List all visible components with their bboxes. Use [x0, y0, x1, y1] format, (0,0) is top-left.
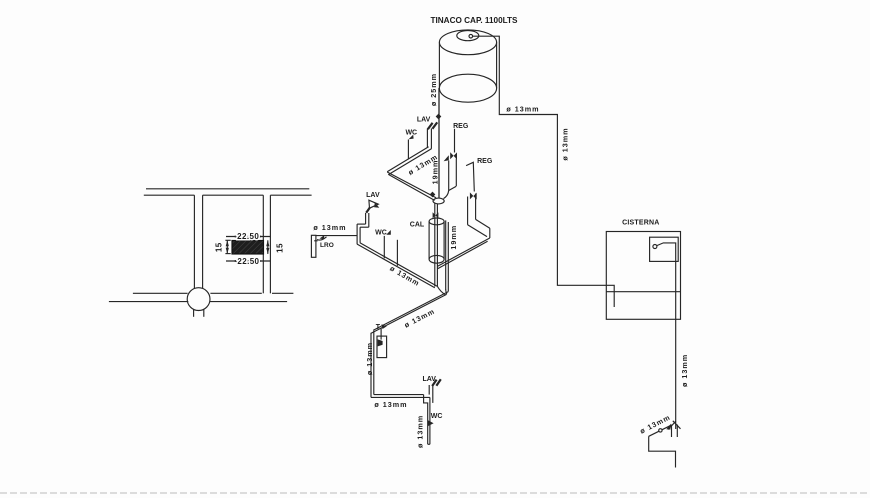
svg-text:ø 13mm: ø 13mm: [561, 127, 570, 160]
svg-text:LAV: LAV: [422, 376, 436, 383]
svg-text:CISTERNA: CISTERNA: [622, 220, 659, 227]
svg-text:REG: REG: [477, 158, 493, 165]
svg-text:ø 13mm: ø 13mm: [506, 104, 539, 113]
svg-text:ø 13mm: ø 13mm: [365, 342, 374, 375]
svg-text:15: 15: [276, 243, 285, 253]
svg-text:LAV: LAV: [366, 192, 380, 199]
svg-text:WC: WC: [405, 130, 417, 137]
svg-text:LRO: LRO: [320, 242, 334, 249]
svg-text:REG: REG: [453, 123, 469, 130]
svg-text:ø 13mm: ø 13mm: [638, 413, 672, 436]
svg-text:ø 13mm: ø 13mm: [374, 400, 407, 409]
svg-text:22.50: 22.50: [237, 232, 259, 241]
svg-text:T: T: [376, 324, 381, 331]
svg-text:ø 13mm: ø 13mm: [313, 223, 346, 232]
svg-text:WC: WC: [375, 229, 387, 236]
svg-text:TINACO CAP. 1100LTS: TINACO CAP. 1100LTS: [430, 16, 518, 25]
svg-text:22.50: 22.50: [237, 257, 259, 266]
svg-text:15: 15: [214, 242, 223, 252]
svg-text:19mm: 19mm: [430, 160, 439, 185]
svg-text:ø 13mm: ø 13mm: [680, 354, 689, 387]
svg-text:LAV: LAV: [417, 116, 431, 123]
svg-text:ø 13mm: ø 13mm: [388, 264, 421, 288]
svg-text:ø 25mm: ø 25mm: [429, 73, 438, 106]
svg-text:CAL: CAL: [410, 221, 425, 228]
svg-text:19mm: 19mm: [449, 225, 458, 250]
svg-text:ø 13mm: ø 13mm: [415, 415, 424, 448]
svg-text:WC: WC: [431, 413, 443, 420]
svg-text:ø 13mm: ø 13mm: [403, 307, 437, 330]
